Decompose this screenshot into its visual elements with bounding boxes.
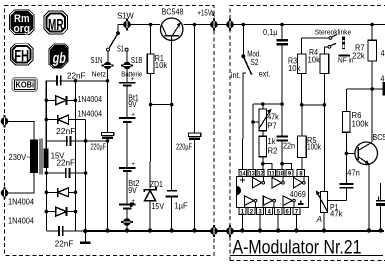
pin 3 bbox=[257, 208, 264, 216]
svg-text:22n: 22n bbox=[283, 141, 295, 150]
logo FH badge bbox=[10, 44, 33, 65]
pin 9 bbox=[286, 169, 293, 177]
node row4/85 junction bbox=[84, 139, 88, 143]
svg-text:BC548: BC548 bbox=[372, 133, 385, 142]
svg-text:100k: 100k bbox=[352, 119, 369, 128]
jack plug shaft bbox=[342, 37, 345, 49]
connector X1 mains L bbox=[1, 115, 9, 127]
svg-text:1N4004: 1N4004 bbox=[78, 95, 103, 104]
svg-text:4069: 4069 bbox=[290, 189, 306, 199]
wire C11 to pin9 bbox=[282, 164, 291, 170]
+15V arrow bbox=[211, 11, 214, 17]
pin 8 bbox=[297, 169, 305, 177]
node R7 bottom bbox=[370, 87, 374, 91]
node C7 ground bbox=[170, 228, 174, 232]
power-supply module dashed border bbox=[5, 6, 214, 256]
IC U1 inverter C bbox=[294, 177, 306, 188]
svg-text:22nF: 22nF bbox=[67, 70, 86, 80]
resistor R2 bbox=[259, 136, 266, 163]
switch S1 lever bbox=[109, 33, 118, 48]
battery Bt1 cell1 bbox=[119, 76, 136, 87]
capacitor C3 22nF row5 bbox=[66, 168, 70, 178]
node P1 ground bbox=[322, 228, 326, 232]
wire cascade rail x85.6 bbox=[85, 120, 87, 231]
ground junction dot bbox=[83, 229, 87, 233]
svg-text:gb: gb bbox=[52, 50, 66, 67]
svg-text:10k: 10k bbox=[308, 55, 321, 64]
svg-text:14: 14 bbox=[240, 171, 247, 177]
svg-text:230V~: 230V~ bbox=[9, 153, 31, 162]
capacitor C5 220uF bbox=[101, 132, 113, 139]
pin 13 bbox=[248, 169, 255, 177]
transformer TR1 15V secondary winding bbox=[43, 149, 48, 169]
wire base link bbox=[151, 104, 172, 106]
wire jack tip to R3 bbox=[302, 37, 330, 39]
wire cascade row1 bbox=[46, 80, 107, 82]
svg-text:1N4004: 1N4004 bbox=[78, 109, 103, 118]
svg-text:+: + bbox=[131, 161, 135, 168]
node R3 link bbox=[300, 103, 304, 107]
svg-text:FH: FH bbox=[14, 48, 29, 65]
battery Bt2 cell2 bbox=[119, 198, 136, 210]
pin 10 bbox=[277, 169, 284, 177]
ground symbol bbox=[80, 231, 90, 244]
node R4 link bbox=[323, 103, 327, 107]
wire C5 to ground bbox=[107, 139, 109, 231]
node row7 left bbox=[45, 210, 49, 214]
transformer TR1 core bbox=[40, 139, 42, 175]
capacitor C7 1uF bbox=[166, 191, 178, 231]
battery Bt1 cell2 bbox=[119, 111, 136, 123]
potentiometer P7 bbox=[259, 104, 272, 136]
connector ground right board bbox=[226, 225, 234, 237]
wire cascade row4 bbox=[46, 140, 107, 142]
IC U1 inverter F bbox=[283, 196, 295, 208]
wire cascade row3 bbox=[46, 119, 85, 121]
connector S1N bbox=[102, 62, 114, 70]
node T2 base bbox=[345, 152, 349, 156]
node P7 wiper tap bbox=[251, 120, 259, 124]
svg-text:BC548: BC548 bbox=[162, 8, 184, 17]
svg-text:NF in: NF in bbox=[338, 55, 354, 64]
node R2 bottom junction bbox=[261, 162, 265, 166]
wire ground rail bbox=[85, 230, 384, 232]
wire cascade row2 bbox=[46, 99, 75, 101]
wire 47n column bbox=[345, 153, 347, 183]
node C11 bottom junction bbox=[280, 162, 284, 166]
svg-text:4µ7: 4µ7 bbox=[381, 74, 385, 83]
wire T2 collector bbox=[371, 89, 373, 142]
svg-text:Netz: Netz bbox=[92, 70, 107, 79]
wire R2 to pin12 bbox=[262, 164, 264, 170]
resistor R3 bbox=[297, 38, 306, 105]
wire pin13 column bbox=[252, 104, 254, 169]
svg-text:1µF: 1µF bbox=[175, 201, 188, 210]
capacitor edge output bbox=[383, 82, 385, 96]
potentiometer P1 bbox=[316, 190, 328, 212]
wire secondary top rail bbox=[45, 81, 47, 149]
svg-text:A-Modulator Nr.21: A-Modulator Nr.21 bbox=[233, 237, 362, 258]
IC U1 4069 body bbox=[237, 177, 309, 208]
zener diode ZD1 bbox=[144, 187, 156, 230]
wire cascade row6 bbox=[46, 191, 75, 193]
node Bt2 ground bbox=[125, 228, 129, 232]
node row2 left bbox=[45, 99, 49, 103]
pin 4 bbox=[266, 208, 273, 216]
switch S1 contact B bbox=[125, 48, 128, 51]
svg-text:1N4004: 1N4004 bbox=[8, 197, 35, 206]
diode D3 1N4004 row6 bbox=[58, 188, 69, 197]
capacitor C6 220uF bbox=[188, 133, 200, 140]
pin 6 bbox=[284, 208, 291, 216]
wire P1 to ground bbox=[323, 213, 325, 231]
svg-text:22k: 22k bbox=[352, 51, 365, 60]
wire Bt1 to Bt2 bbox=[126, 123, 128, 167]
svg-text:11: 11 bbox=[269, 171, 276, 177]
capacitor C1 22nF row1 bbox=[57, 76, 61, 86]
node base link left bbox=[149, 103, 153, 107]
node row7 right bbox=[74, 210, 78, 214]
resistor R7 bbox=[368, 25, 377, 90]
IC U1 inverter A bbox=[252, 177, 264, 188]
svg-text:12: 12 bbox=[258, 171, 265, 177]
jack ring contact bbox=[328, 43, 336, 48]
IC U1 notch bbox=[237, 186, 242, 195]
wire jack ring to R4 bbox=[324, 47, 328, 54]
wire Bt1 mid bbox=[126, 87, 128, 118]
switch S1 contact N bbox=[107, 48, 110, 51]
wire cascade row7 bbox=[46, 211, 75, 213]
svg-text:9V: 9V bbox=[128, 186, 137, 195]
svg-text:13: 13 bbox=[249, 171, 256, 177]
wire ZD1 column bbox=[149, 105, 152, 189]
modulator module dashed border bbox=[230, 6, 385, 261]
wire cascade right rail x75.5 bbox=[75, 81, 77, 231]
svg-text:Mod.: Mod. bbox=[247, 49, 261, 58]
wire S1W drop bbox=[117, 25, 119, 34]
svg-text:S1N: S1N bbox=[91, 56, 103, 65]
node C8 rail bbox=[280, 23, 284, 27]
wire Bt2 mid bbox=[126, 172, 128, 204]
connector S1B bbox=[121, 62, 133, 70]
wire P7 top rail bbox=[253, 103, 282, 105]
wire C6 to ground bbox=[194, 140, 196, 231]
pin 7 bbox=[293, 208, 300, 216]
IC U1 vss mark bbox=[298, 201, 303, 205]
svg-text:org: org bbox=[14, 23, 31, 35]
capacitor C8 0.1uF bbox=[277, 25, 288, 45]
wire mains N to transformer bbox=[6, 173, 34, 193]
wire cascade row8 bbox=[46, 230, 85, 232]
svg-text:10: 10 bbox=[278, 171, 285, 177]
resistor R4 bbox=[320, 54, 329, 74]
diode D1 1N4004 row2 bbox=[56, 96, 67, 105]
wire T2 emitter to ground bbox=[368, 164, 370, 231]
wire cascade row5 bbox=[46, 172, 85, 174]
svg-text:47k: 47k bbox=[381, 49, 385, 58]
node T2 emitter ground bbox=[367, 228, 371, 232]
logo MR badge bbox=[44, 11, 68, 34]
svg-text:+: + bbox=[131, 76, 135, 83]
wire C8 bottom to 22n bbox=[281, 45, 283, 135]
capacitor C2 22nF row4 bbox=[67, 136, 71, 146]
svg-text:S1: S1 bbox=[117, 44, 124, 53]
title underline bbox=[230, 254, 383, 256]
logo RM.org badge bbox=[10, 10, 35, 35]
connector ground left board bbox=[210, 225, 218, 237]
pin 2 bbox=[248, 208, 255, 216]
svg-text:ext.: ext. bbox=[259, 70, 271, 79]
wire S2 int to pin14 bbox=[242, 73, 244, 169]
svg-text:P7: P7 bbox=[267, 121, 277, 130]
svg-text:S2: S2 bbox=[251, 58, 259, 67]
svg-text:KOBi: KOBi bbox=[16, 80, 35, 90]
jack sleeve bar bbox=[339, 54, 351, 56]
svg-text:MR: MR bbox=[48, 17, 64, 34]
node row5 left bbox=[45, 171, 49, 175]
capacitor C10 output bbox=[376, 201, 385, 206]
wire T1 lead down to C7 bbox=[171, 105, 173, 190]
node C8 column joint bbox=[280, 102, 284, 106]
node base link right bbox=[170, 103, 174, 107]
wire C11 to pin10 bbox=[281, 164, 283, 170]
pin 1 bbox=[239, 208, 246, 216]
wire output cap column bbox=[378, 183, 380, 200]
wire R3-R4 link bbox=[302, 104, 325, 106]
svg-text:220µF: 220µF bbox=[91, 143, 107, 152]
node row1/rail junction bbox=[74, 79, 78, 83]
wire base node rail y89 bbox=[346, 88, 382, 90]
logo gb badge bbox=[49, 44, 68, 68]
svg-text:47n: 47n bbox=[347, 169, 360, 178]
wire Bt2 to ground bbox=[126, 210, 128, 231]
node C6 rail bbox=[193, 23, 197, 27]
battery Bt2 cell1 bbox=[119, 161, 136, 172]
node row1/netz junction bbox=[106, 79, 110, 83]
jack tip contact bbox=[329, 35, 337, 40]
node P7 top bbox=[261, 102, 265, 106]
connector +15V right board bbox=[226, 18, 234, 30]
switch S2 int contact bbox=[243, 73, 246, 76]
svg-text:100k: 100k bbox=[307, 142, 321, 151]
node R7 rail bbox=[370, 23, 374, 27]
connector S1W bbox=[123, 18, 131, 30]
switch S2 lever bbox=[243, 56, 251, 74]
transformer TR1 230V primary winding bbox=[30, 140, 38, 174]
wire S2 feed bbox=[242, 25, 244, 57]
resistor R6 bbox=[343, 89, 351, 153]
wire secondary bottom rail bbox=[45, 168, 47, 231]
connector X2 mains N bbox=[1, 187, 9, 199]
battery minus marks bbox=[130, 202, 134, 207]
diode D4 1N4004 row7 bbox=[56, 207, 67, 216]
svg-text:S1B: S1B bbox=[131, 56, 143, 65]
connector +15V left board bbox=[210, 18, 218, 30]
svg-text:47k: 47k bbox=[330, 210, 343, 219]
wire Batterie column bbox=[126, 51, 128, 82]
wire C10 to ground bbox=[380, 206, 382, 231]
wire +15V rail bbox=[118, 24, 385, 26]
node ZD1 ground bbox=[148, 228, 152, 232]
svg-text:+: + bbox=[131, 111, 135, 118]
svg-text:S1W: S1W bbox=[117, 12, 134, 21]
capacitor C9 47n bbox=[340, 184, 354, 200]
node row6 left bbox=[45, 191, 49, 195]
node C10 ground bbox=[379, 228, 383, 232]
wire C6 drop bbox=[194, 25, 196, 134]
svg-text:R2: R2 bbox=[268, 147, 278, 156]
svg-text:1k: 1k bbox=[268, 137, 276, 146]
node row2 right bbox=[74, 99, 78, 103]
wire C9 to P1 wiper bbox=[327, 199, 346, 201]
resistor R1 bbox=[147, 25, 154, 105]
IC U1 inverter D bbox=[245, 196, 257, 208]
wire pin7 to ground bbox=[294, 215, 298, 233]
node S2 pivot bbox=[241, 54, 245, 58]
node S2 rail bbox=[242, 23, 246, 27]
wire pin3 to ground bbox=[258, 215, 262, 233]
svg-text:+15V: +15V bbox=[197, 9, 212, 18]
logo KOBi badge bbox=[12, 78, 38, 92]
svg-text:9V: 9V bbox=[128, 100, 137, 109]
svg-text:Stereoklinke: Stereoklinke bbox=[315, 27, 352, 36]
node R1 rail bbox=[149, 23, 153, 27]
wire R4/P1 column bbox=[323, 73, 325, 191]
svg-text:0,1µ: 0,1µ bbox=[263, 27, 278, 37]
svg-text:47k: 47k bbox=[267, 113, 279, 122]
node S1 pivot bbox=[116, 31, 120, 35]
capacitor C4 22nF row8 bbox=[59, 226, 63, 236]
capacitor C11 22n bbox=[277, 136, 288, 163]
wire Netz column bbox=[107, 51, 109, 132]
pin 14 bbox=[239, 169, 247, 177]
wire pin5 to ground bbox=[276, 215, 280, 233]
diode D2 1N4004 row3 bbox=[58, 115, 69, 124]
resistor R5 bbox=[298, 105, 307, 170]
wire pin1 to ground bbox=[240, 215, 244, 233]
svg-text:22nF: 22nF bbox=[56, 126, 76, 136]
transistor T1 BC548 bbox=[161, 18, 183, 105]
pin 11 bbox=[268, 169, 275, 177]
wire R2 to pin11 bbox=[263, 164, 272, 170]
svg-text:1N4004: 1N4004 bbox=[8, 216, 35, 225]
wire T2 base bbox=[346, 152, 358, 154]
svg-text:int.: int. bbox=[231, 71, 241, 80]
svg-text:22nF: 22nF bbox=[55, 238, 74, 248]
IC U1 plus mark bbox=[240, 177, 245, 182]
node row3 left bbox=[45, 118, 49, 122]
node row5 right bbox=[84, 171, 88, 175]
IC U1 inverter E bbox=[263, 196, 275, 208]
svg-text:A: A bbox=[315, 215, 322, 224]
svg-text:10k: 10k bbox=[288, 64, 301, 73]
connector Bt2 bbox=[121, 218, 133, 226]
node C6 ground bbox=[192, 228, 196, 232]
node row6 right bbox=[74, 191, 78, 195]
svg-text:10k: 10k bbox=[155, 61, 168, 70]
pin 12 bbox=[257, 169, 264, 177]
svg-text:22nF: 22nF bbox=[57, 157, 76, 167]
pin 5 bbox=[275, 208, 282, 216]
wire mains L to transformer bbox=[6, 121, 34, 139]
transistor T2 BC548 bbox=[355, 142, 378, 165]
svg-text:15V: 15V bbox=[152, 202, 165, 211]
svg-text:220µF: 220µF bbox=[176, 143, 192, 152]
IC U1 inverter B bbox=[272, 177, 284, 188]
node C5 ground bbox=[105, 228, 109, 232]
node row4/220u junction bbox=[106, 139, 110, 143]
